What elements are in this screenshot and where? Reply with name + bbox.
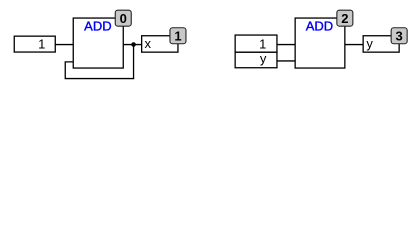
constant box 1 (left diagram input) [14, 36, 55, 52]
svg-text:x: x [144, 36, 151, 51]
junction dot on output wire [131, 42, 136, 47]
svg-text:1: 1 [174, 28, 181, 43]
wire input-1 to ADD U2 [277, 44, 295, 46]
wire U2 output to box y [345, 44, 363, 46]
svg-text:y: y [260, 51, 267, 66]
svg-text:y: y [366, 36, 373, 51]
svg-text:3: 3 [396, 28, 403, 43]
badge 2 (on U2 top-right corner) [337, 10, 353, 26]
wire input-y to ADD U2 [277, 60, 295, 62]
svg-text:ADD: ADD [306, 19, 333, 34]
svg-text:0: 0 [120, 11, 127, 26]
stacked input boxes (right diagram): cell 1 [235, 35, 277, 52]
svg-text:ADD: ADD [84, 19, 111, 34]
badge 1 (on box x top-right corner) [170, 28, 186, 44]
wire input-1 to ADD U1 [55, 44, 73, 46]
feedback wire x back to U1 second input [65, 46, 133, 78]
svg-text:2: 2 [341, 11, 348, 26]
svg-text:1: 1 [259, 37, 266, 52]
output box x [142, 36, 178, 52]
op ADD U2 (right block) [295, 18, 345, 68]
badge 3 (on box y top-right corner) [391, 28, 407, 44]
op ADD U1 (left block) [73, 18, 123, 68]
output box y [363, 36, 399, 52]
wire U1 output to box x [123, 44, 141, 46]
svg-text:1: 1 [38, 36, 45, 51]
stacked input boxes: cell y [235, 51, 277, 68]
badge 0 (output index badge on U1 top-right corner) [115, 10, 131, 26]
